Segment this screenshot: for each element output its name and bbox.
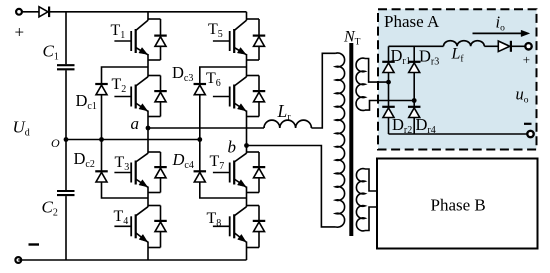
wire left leg segment 1	[147, 12, 149, 21]
diode branch T8	[247, 206, 266, 248]
transistor T8	[213, 207, 247, 243]
diode branch T2	[148, 76, 167, 117]
wire clamp top left	[102, 67, 149, 140]
svg-text:+: +	[15, 23, 25, 42]
rectifier diode Dr3	[408, 62, 421, 73]
T8 label	[207, 210, 222, 229]
rectifier diode Dr2	[382, 107, 395, 118]
T1 label	[111, 22, 126, 41]
diode branch T5	[247, 19, 266, 60]
io arrow	[473, 30, 530, 36]
wire left leg segment 2	[147, 54, 149, 77]
junction clamp right	[197, 137, 202, 142]
diode branch T7	[247, 152, 266, 193]
svg-text:Ud: Ud	[13, 118, 30, 139]
plus output terminal	[525, 43, 531, 49]
Ud label	[13, 118, 30, 139]
wire Lf to output diode	[484, 45, 498, 47]
svg-text:Lr: Lr	[277, 101, 292, 123]
diode branch T3	[148, 152, 167, 193]
Phase A block (dashed box)	[378, 9, 537, 149]
diode branch T1	[148, 19, 167, 60]
C2 label	[42, 198, 58, 219]
transformer primary winding	[336, 53, 345, 227]
wire right leg bottom	[246, 242, 248, 261]
negative input terminal	[15, 257, 21, 263]
junction right rail	[412, 98, 417, 103]
transistor T4	[114, 207, 148, 243]
diode branch T4	[148, 206, 167, 248]
wire clamp bottom left	[102, 140, 149, 199]
clamp diode Dc1	[95, 84, 108, 95]
wire neutral to C2	[65, 140, 67, 191]
io label	[496, 13, 506, 34]
svg-text:T8: T8	[207, 210, 222, 229]
uo label	[516, 85, 529, 106]
wire neutral bus	[66, 139, 200, 141]
svg-text:NT: NT	[343, 29, 361, 48]
rectifier diode Dr4	[408, 107, 421, 118]
inductor Lf	[444, 41, 485, 47]
svg-text:Dc4: Dc4	[172, 150, 194, 171]
T4 label	[114, 208, 129, 227]
svg-text:T6: T6	[206, 70, 221, 89]
wire secondary A top to rectifier	[365, 59, 389, 83]
Dr3 label	[419, 47, 439, 68]
minus output terminal	[527, 131, 533, 137]
junction clamp left	[99, 137, 104, 142]
wire left bus upper	[65, 12, 67, 64]
wire diode to plus terminal	[511, 45, 525, 47]
Dc4 label	[172, 150, 194, 171]
rectifier diode Dr1	[382, 62, 395, 73]
Dc1 label	[76, 91, 97, 112]
wire clamp top right	[200, 67, 247, 140]
Lr label	[277, 101, 292, 123]
transformer secondary B winding	[356, 169, 365, 231]
wire right leg segment 1	[246, 12, 248, 21]
wire clamp bottom right	[200, 140, 247, 199]
wire C1 to neutral	[65, 70, 67, 139]
Phase B block (solid box)	[377, 159, 538, 249]
plus sign (input)	[15, 23, 25, 42]
svg-text:T3: T3	[115, 154, 130, 173]
svg-text:+: +	[523, 52, 530, 67]
wire secondary B bottom to Phase B	[365, 207, 377, 231]
output diode	[498, 41, 511, 52]
capacitor C2	[57, 191, 75, 195]
wire rectifier bottom rail	[389, 133, 528, 135]
transistor T3	[114, 153, 148, 187]
positive input terminal	[16, 9, 22, 15]
clamp diode Dc2	[95, 171, 108, 182]
wire left leg bottom	[147, 242, 149, 261]
svg-text:b: b	[228, 138, 237, 157]
plus sign (output)	[523, 52, 530, 67]
transistor T5	[213, 20, 247, 55]
svg-text:Dc2: Dc2	[74, 149, 95, 170]
transistor T2	[114, 77, 148, 112]
Phase B label	[431, 196, 486, 215]
junction left rail	[386, 80, 391, 85]
wire Lr to primary top	[311, 53, 335, 128]
Dr4 label	[416, 115, 436, 136]
svg-text:Phase B: Phase B	[431, 196, 486, 215]
wire rectifier left rail	[388, 46, 390, 134]
clamp diode Dc3	[194, 84, 207, 95]
Dr2 label	[392, 115, 412, 136]
T7 label	[210, 153, 225, 172]
T3 label	[115, 154, 130, 173]
transformer core	[349, 43, 353, 236]
wire top bus	[49, 11, 246, 13]
minus sign (output)	[524, 123, 532, 125]
capacitor C1	[57, 65, 75, 69]
transistor T6	[213, 77, 247, 112]
transistor T1	[114, 20, 148, 55]
svg-text:C2: C2	[42, 198, 58, 219]
minus sign (input)	[29, 243, 40, 245]
transformer secondary A winding	[356, 58, 365, 110]
wire right leg segment 4	[246, 187, 248, 207]
input diode	[39, 7, 49, 18]
svg-text:C1: C1	[43, 42, 59, 63]
wire left leg segment 3	[147, 111, 149, 154]
inductor Lr	[264, 120, 311, 128]
svg-text:T2: T2	[112, 76, 127, 95]
svg-text:Phase A: Phase A	[384, 12, 440, 31]
wire right leg segment 2	[246, 54, 248, 77]
O label	[51, 136, 60, 150]
svg-text:O: O	[51, 136, 60, 150]
wire secondary A bottom to rectifier	[365, 101, 414, 111]
svg-text:T1: T1	[111, 22, 126, 41]
diode branch T6	[247, 76, 266, 117]
wire node b to primary bottom	[247, 146, 336, 227]
svg-text:Dc3: Dc3	[172, 63, 193, 84]
wire terminal to diode	[22, 11, 40, 13]
wire left leg segment 4	[147, 187, 149, 207]
svg-text:T7: T7	[210, 153, 225, 172]
NT label	[343, 29, 361, 48]
T6 label	[206, 70, 221, 89]
wire rectifier top rail	[389, 45, 444, 47]
svg-text:T4: T4	[114, 208, 129, 227]
node b	[228, 138, 249, 157]
wire bottom bus	[18, 259, 246, 261]
T2 label	[112, 76, 127, 95]
C1 label	[43, 42, 59, 63]
node a	[131, 114, 151, 133]
svg-text:T5: T5	[208, 21, 223, 40]
Dc2 label	[74, 149, 95, 170]
Dc3 label	[172, 63, 193, 84]
svg-text:Dc1: Dc1	[76, 91, 97, 112]
T5 label	[208, 21, 223, 40]
wire rectifier right rail	[413, 46, 415, 134]
Phase A label	[384, 12, 440, 31]
clamp diode Dc4	[194, 171, 207, 182]
transistor T7	[213, 153, 247, 187]
wire secondary B top to Phase B	[365, 169, 377, 191]
Dr1 label	[391, 46, 411, 67]
wire C2 to bottom bus	[65, 196, 67, 260]
svg-text:a: a	[131, 114, 140, 133]
wire right leg segment 3	[246, 111, 248, 154]
Lf label	[451, 46, 465, 65]
node O junction	[64, 137, 69, 142]
wire node a to Lr	[148, 127, 264, 129]
